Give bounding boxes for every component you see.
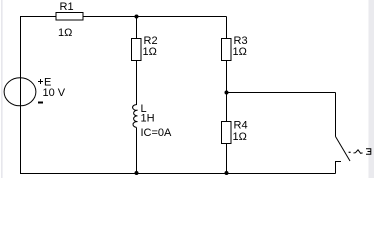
switch S1 tiny dash mark <box>349 151 351 153</box>
wire top (node 1 to node 2) <box>20 16 227 18</box>
battery source E <box>4 78 36 106</box>
svg-text:1Ω: 1Ω <box>58 27 72 39</box>
minus mark of E <box>38 102 43 104</box>
inductor L coil <box>133 105 138 128</box>
wire middle branch upper <box>136 17 138 106</box>
resistor R4 <box>222 122 232 144</box>
svg-text:R1: R1 <box>60 1 74 13</box>
svg-text:R4: R4 <box>234 120 248 132</box>
svg-text:1Ω: 1Ω <box>143 46 157 58</box>
left window edge strip <box>1 0 3 178</box>
svg-text:10 V: 10 V <box>43 87 66 99</box>
svg-text:1Ω: 1Ω <box>233 131 247 143</box>
svg-text:1H: 1H <box>141 113 155 125</box>
node A junction dot top <box>135 15 139 19</box>
node B junction dot mid-right <box>225 91 229 95</box>
right scrollbar strip <box>369 0 374 178</box>
wire bottom <box>20 173 336 175</box>
resistor R2 <box>132 39 142 61</box>
plus mark of E <box>38 79 43 84</box>
wire left vertical <box>20 16 22 174</box>
switch S1 arm <box>336 137 351 162</box>
wire mid-right horizontal <box>227 92 336 94</box>
switch S1 tiny reversed-E mark <box>366 149 371 155</box>
wire middle branch lower <box>136 128 138 174</box>
switch S1 fixed contact stub <box>336 162 342 174</box>
resistor R3 <box>222 39 232 61</box>
node D junction dot bottom right <box>225 171 229 175</box>
svg-text:IC=0A: IC=0A <box>141 127 173 139</box>
switch S1 tiny zigzag mark <box>354 150 363 154</box>
node C junction dot bottom middle <box>135 171 139 175</box>
resistor R1 <box>56 13 83 21</box>
wire R3 R4 branch <box>226 17 228 174</box>
wire right vertical to switch <box>335 93 337 137</box>
svg-text:1Ω: 1Ω <box>233 46 247 58</box>
